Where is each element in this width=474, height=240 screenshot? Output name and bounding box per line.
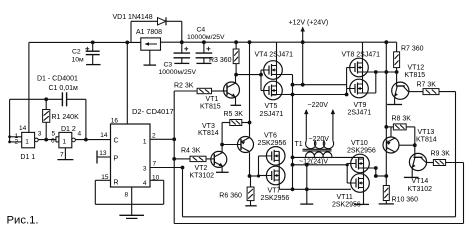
node VT5 drain: [291, 93, 295, 97]
svg-text:R7 3K: R7 3K: [417, 81, 437, 88]
mosfet VT8 2SJ471: [350, 58, 369, 77]
node gate feed left end: [291, 163, 295, 167]
wire VT2 collector: [221, 145, 223, 153]
ground A1: [144, 64, 157, 66]
wire to R10: [376, 175, 387, 177]
node right P output: [374, 70, 378, 74]
wire +12V column: [302, 42, 304, 84]
wire R5 left to VT3 base node: [221, 123, 223, 145]
svg-text:8: 8: [125, 191, 129, 198]
capacitor C3: [181, 42, 183, 53]
wire +12V rail: [161, 41, 397, 43]
svg-text:2SK2956: 2SK2956: [261, 195, 290, 202]
gate D1.2 input tie: [55, 137, 57, 142]
wire primary ground drop: [306, 165, 308, 190]
resistor R2 3K: [174, 90, 197, 92]
wire VT10-VT11 link: [363, 157, 365, 192]
svg-text:D1 2: D1 2: [61, 126, 76, 133]
svg-text:2SK2956: 2SK2956: [332, 202, 361, 209]
svg-text:VT7: VT7: [268, 187, 281, 194]
wire VT1 emitter ground: [235, 97, 237, 105]
wire D2 pin8 ground: [131, 187, 133, 215]
wire left bridge output column: [292, 75, 294, 190]
node R3 top: [234, 40, 238, 44]
svg-text:1: 1: [143, 139, 147, 146]
gate D1.2 pin7 ground: [64, 148, 66, 160]
transistor VT13 KT814: [383, 137, 399, 153]
gate D1.1 inputs: [10, 136, 22, 138]
wire D2 pin7 output: [150, 167, 183, 169]
wire D2 pin2 output: [150, 138, 174, 140]
wire D1 inputs column: [9, 99, 11, 142]
node gate bus top: [346, 163, 349, 166]
svg-text:10000м/25V: 10000м/25V: [187, 34, 225, 41]
wire feedback bus lower: [174, 223, 463, 225]
svg-text:7: 7: [153, 160, 157, 167]
gate bus VT6 VT7: [258, 156, 260, 176]
svg-text:R: R: [114, 179, 119, 186]
mosfet VT6 2SK2956: [266, 147, 285, 166]
resistor R5 3K: [222, 122, 230, 124]
mosfet VT5 2SJ471: [264, 81, 283, 100]
wire 220V output right with arrow: [332, 110, 334, 141]
wire rail-VT13 column: [385, 42, 387, 139]
regulator A1 7808: [141, 38, 161, 50]
diode VD1 1N4148: [130, 21, 132, 42]
svg-text:C4: C4: [197, 27, 206, 34]
wire D2 pin16: [126, 42, 128, 124]
svg-text:KT814: KT814: [198, 130, 219, 137]
resistor R1 240K: [45, 99, 47, 109]
wire VT5 drain stub: [272, 94, 293, 96]
wire VT4 source to rail: [276, 42, 278, 65]
capacitor C1: [61, 92, 63, 106]
svg-text:+12V (+24V): +12V (+24V): [289, 20, 329, 27]
wire VT12 base: [396, 72, 398, 86]
wire feedback bus upper: [183, 216, 456, 218]
svg-text:R9 3K: R9 3K: [431, 150, 451, 157]
wire right P output column: [375, 72, 377, 93]
svg-text:R7 360: R7 360: [401, 45, 424, 52]
resistor R8 3K: [384, 125, 388, 129]
wire VT3 emitter column from rail: [248, 40, 252, 44]
wire A1 ground lead: [149, 50, 151, 65]
svg-text:6: 6: [51, 137, 55, 144]
svg-text:13: 13: [99, 150, 107, 157]
node right P gate bus bottom: [345, 93, 349, 97]
svg-text:VT11: VT11: [337, 194, 353, 201]
resistor R9 3K: [426, 162, 433, 164]
node R7 bottom: [395, 70, 399, 74]
node R4 tap: [172, 157, 176, 161]
wire VT8-VT9 link: [362, 63, 364, 84]
wire gate feed right N pair: [293, 164, 348, 166]
node R1 bottom: [44, 138, 48, 142]
svg-text:R2 3K: R2 3K: [174, 83, 194, 90]
capacitor C2: [86, 50, 100, 52]
svg-text:1: 1: [63, 139, 67, 146]
gate bus VT8 VT9: [346, 68, 348, 95]
wire D2 pin15 reset loop: [95, 179, 110, 181]
wire VT4 drain stub: [272, 74, 293, 76]
svg-text:VT2: VT2: [195, 165, 208, 172]
wire C1 row: [10, 98, 63, 100]
svg-text:R1 240K: R1 240K: [52, 114, 80, 121]
wire cross feed to right P gates: [293, 84, 347, 86]
wire R8 right down to VT14 base: [414, 127, 416, 157]
IC D2 CD4017 body: [111, 124, 151, 187]
svg-text:2SK2956: 2SK2956: [258, 140, 287, 147]
svg-text:D2- CD4017: D2- CD4017: [132, 107, 174, 116]
svg-text:4: 4: [143, 180, 147, 187]
svg-text:D1 1: D1 1: [20, 154, 35, 161]
wire VT8 source to rail: [362, 42, 364, 63]
node +12V column: [301, 83, 305, 87]
svg-text:KT3102: KT3102: [190, 173, 215, 180]
svg-text:VT6: VT6: [264, 132, 277, 139]
wire VT13 base column to R10 node: [385, 151, 387, 176]
wire VT11 source ground: [363, 192, 365, 204]
wire VT4 VT5 gate feed: [236, 74, 261, 76]
node primary ground tap: [305, 163, 309, 167]
wire VT10 stub: [359, 167, 376, 169]
svg-text:7: 7: [60, 152, 64, 159]
ground primary: [300, 203, 313, 205]
wire source ground bus: [279, 188, 351, 190]
wire D1.1 output: [38, 139, 56, 141]
svg-text:R5 3K: R5 3K: [224, 111, 244, 118]
svg-text:KT815: KT815: [200, 104, 221, 111]
svg-text:4: 4: [78, 130, 82, 137]
mosfet VT10 2SK2956: [351, 154, 370, 173]
wire D1.2 output to D2: [75, 139, 110, 141]
svg-text:14: 14: [19, 125, 27, 132]
transistor VT1 KT815: [224, 82, 240, 98]
svg-text:10000м/25V: 10000м/25V: [159, 69, 197, 76]
node pin7: [181, 166, 185, 170]
node right N output: [374, 174, 378, 178]
node R1 top: [44, 97, 48, 101]
svg-text:2SK2956: 2SK2956: [347, 148, 376, 155]
svg-text:3: 3: [143, 166, 147, 173]
wire D2 pin13 stub: [97, 156, 111, 158]
resistor R7 360: [396, 42, 398, 52]
ground R10: [379, 203, 394, 205]
node C1 feedback: [84, 138, 88, 142]
node C2 top: [91, 41, 95, 45]
svg-text:VT12: VT12: [408, 65, 425, 72]
transistor VT2 KT3102: [211, 151, 227, 167]
node pin2: [172, 137, 176, 141]
gate D1.2: [59, 132, 72, 147]
wire driver left column: [173, 91, 175, 224]
gate D1.1: [22, 132, 35, 147]
wire VD1 cathode down: [181, 21, 183, 42]
svg-text:VT8 2SJ471: VT8 2SJ471: [342, 52, 381, 59]
wire primary rail: [293, 156, 364, 158]
ground R6: [245, 205, 256, 207]
node VT3 collector / R6 / N gate feed: [248, 174, 252, 178]
resistor R10 360: [385, 176, 387, 186]
wire VT3 collector down: [249, 152, 251, 176]
resistor R3 360: [235, 42, 237, 49]
wire VT12 emitter ground: [394, 97, 396, 105]
gate bus VT10 VT11: [346, 164, 348, 184]
svg-text:2SJ471: 2SJ471: [348, 110, 372, 117]
wire VT6 VT7 drain column: [278, 151, 280, 189]
wire VT4-VT5 link: [276, 66, 278, 87]
resistor R4 3K: [174, 158, 190, 160]
wire VT13 emitter up: [390, 127, 392, 137]
T1 secondary winding: [306, 141, 334, 149]
svg-text:A1 7808: A1 7808: [136, 29, 162, 36]
svg-text:T1: T1: [295, 141, 303, 148]
svg-text:VT14: VT14: [412, 178, 429, 185]
transistor VT12 KT815: [392, 82, 409, 99]
ground C4: [196, 62, 211, 64]
svg-text:R6 360: R6 360: [219, 193, 242, 200]
svg-text:C3: C3: [164, 62, 173, 69]
node column bottom: [291, 187, 295, 191]
svg-text:3: 3: [38, 130, 42, 137]
svg-text:R8 3K: R8 3K: [392, 115, 412, 122]
wire VT9 drain stub: [358, 92, 376, 94]
node primary rail left: [291, 156, 295, 160]
svg-text:R4 3K: R4 3K: [181, 148, 201, 155]
svg-text:1: 1: [25, 139, 29, 146]
wire VT2 emitter ground: [221, 166, 223, 172]
svg-text:VD1 1N4148: VD1 1N4148: [113, 14, 153, 21]
wire feedback outer right: [455, 92, 457, 217]
node VT10 stub: [374, 166, 378, 170]
svg-text:P: P: [114, 155, 119, 162]
svg-text:5: 5: [52, 130, 56, 137]
svg-text:2SJ471: 2SJ471: [260, 111, 284, 118]
wire 8V rail left segment: [29, 41, 141, 43]
svg-text:2: 2: [152, 133, 156, 140]
node VD1/C3: [180, 40, 184, 44]
svg-text:C1 0,01м: C1 0,01м: [49, 85, 79, 92]
node R5 right on VT3 emitter column: [248, 121, 252, 125]
svg-text:VT10: VT10: [351, 140, 368, 147]
svg-text:VT13: VT13: [418, 129, 435, 136]
svg-text:10м: 10м: [72, 57, 85, 64]
node rail to VT13 column: [384, 40, 388, 44]
wire 220V output left with arrow: [305, 110, 307, 141]
node column at gate wire: [384, 70, 388, 74]
wire N gate feed: [250, 175, 259, 177]
ground C3: [174, 62, 189, 64]
node C4: [202, 40, 206, 44]
node VT13-VT14 base junction: [413, 143, 417, 147]
ground C2: [86, 64, 100, 66]
arrow +12V supply: [302, 28, 304, 42]
wire to R7 and VT12: [376, 71, 397, 73]
svg-text:KT815: KT815: [405, 72, 426, 79]
svg-text:14: 14: [100, 132, 108, 139]
svg-text:VT9: VT9: [354, 102, 367, 109]
capacitor C4: [203, 42, 205, 53]
svg-text:~220V: ~220V: [309, 136, 330, 143]
wire C1 feedback down: [85, 99, 87, 139]
wire feedback inner right: [463, 163, 465, 224]
node primary ground: [305, 187, 309, 191]
mosfet VT4 2SJ471: [264, 61, 283, 80]
svg-text:2: 2: [15, 139, 19, 146]
mosfet VT11 2SK2956: [351, 174, 370, 193]
wire VT1 collector: [235, 75, 237, 83]
svg-text:KT3102: KT3102: [408, 186, 433, 193]
node R10 top: [384, 174, 388, 178]
mosfet VT9 2SJ471: [350, 79, 369, 98]
wire VT13 collector wire: [399, 144, 415, 146]
T1 primary winding: [306, 152, 332, 157]
T1 core: [303, 148, 332, 150]
mosfet VT7 2SK2956: [266, 166, 285, 185]
node D2 pin16 top: [125, 41, 129, 45]
wire pin7 column: [182, 168, 184, 217]
wire VT14 emitter ground: [411, 168, 413, 177]
svg-text:D1 - CD4001: D1 - CD4001: [37, 75, 78, 82]
wire right N output column: [375, 168, 377, 176]
svg-text:VT4 2SJ471: VT4 2SJ471: [255, 52, 294, 59]
svg-text:R3 360: R3 360: [209, 57, 232, 64]
svg-text:VT5: VT5: [265, 103, 278, 110]
svg-text:KT814: KT814: [416, 136, 437, 143]
wire VT5 row to right gate bus: [293, 94, 347, 96]
svg-text:R10 360: R10 360: [392, 196, 419, 203]
transistor VT14 KT3102: [409, 153, 426, 170]
svg-text:VT1: VT1: [206, 96, 219, 103]
wire 8V vertical to D1 pin14: [28, 42, 30, 132]
node wire1 branch: [291, 83, 295, 87]
transistor VT3 KT814: [238, 137, 254, 153]
svg-text:Рис.1.: Рис.1.: [7, 215, 39, 227]
svg-text:C2: C2: [72, 49, 81, 56]
resistor R7 3K: [408, 91, 423, 93]
gate bus VT4 VT5: [260, 70, 262, 91]
node VT3 base / VT2 collector: [220, 143, 224, 147]
svg-text:16: 16: [111, 117, 119, 124]
node R3/VT1 collector: [234, 73, 238, 77]
wire VT8 drain stub: [358, 71, 376, 73]
resistor R6 360: [250, 176, 252, 187]
svg-text:C: C: [114, 137, 119, 144]
node gate bus left P: [259, 73, 263, 77]
svg-text:~220V: ~220V: [308, 102, 329, 109]
